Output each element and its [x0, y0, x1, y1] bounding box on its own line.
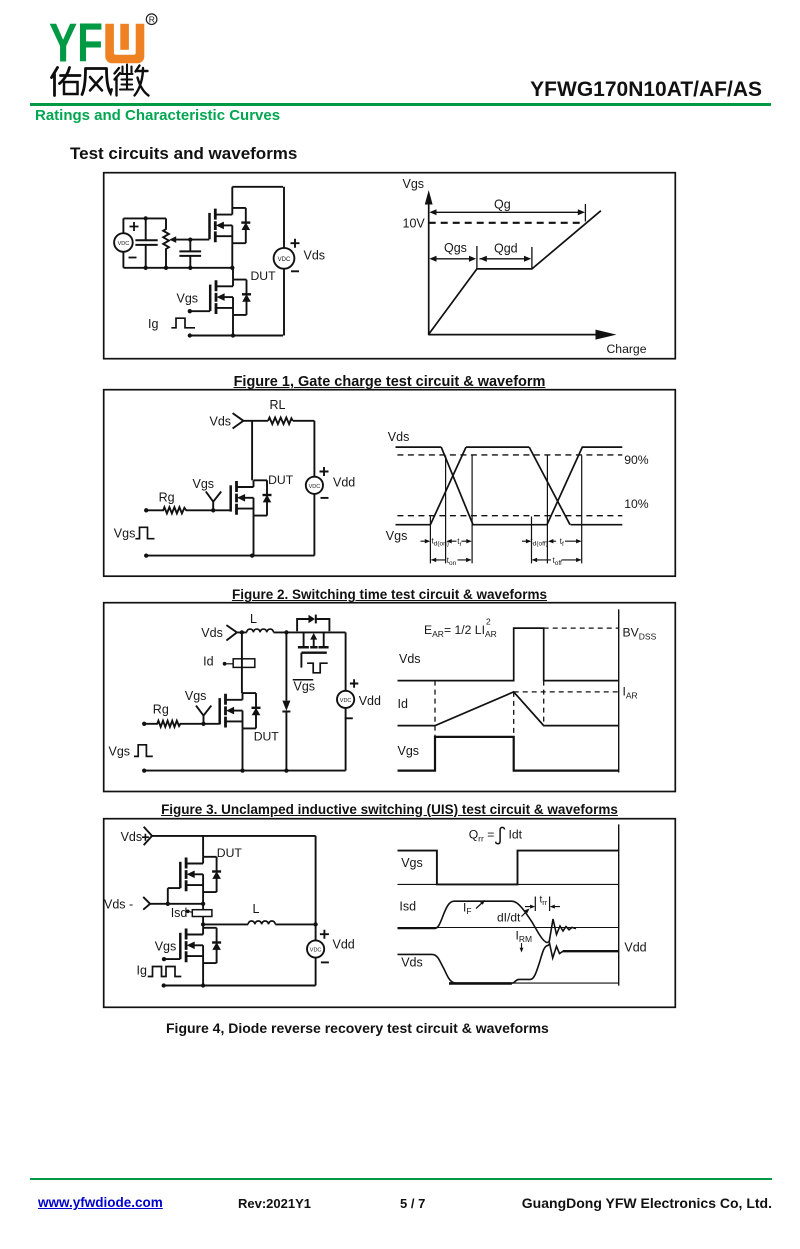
svg-text:Vds: Vds — [388, 430, 410, 444]
svg-text:IF: IF — [463, 901, 472, 917]
Vds+ probe — [144, 827, 152, 845]
minus sign Vds — [291, 270, 299, 272]
wire: DUT source down — [253, 516, 255, 556]
ton arrow — [432, 559, 471, 561]
figure 3 frame — [104, 603, 676, 792]
VDC gate supply source — [114, 233, 133, 252]
wire: bottom rail — [144, 770, 345, 772]
inductor L — [248, 921, 275, 924]
svg-text:Vgs: Vgs — [155, 940, 177, 954]
svg-text:RL: RL — [270, 398, 286, 412]
wire: DUT gate — [190, 310, 210, 312]
gate charge curve — [428, 211, 601, 335]
svg-text:L: L — [250, 612, 257, 626]
svg-text:Qrr =: Qrr = — [469, 828, 495, 844]
dashed IAR level — [514, 691, 619, 693]
logo chinese feng — [82, 69, 112, 95]
resistor Rg — [146, 507, 230, 513]
fig1 waveform — [425, 190, 617, 340]
svg-text:90%: 90% — [624, 453, 649, 467]
svg-text:2: 2 — [486, 617, 491, 627]
svg-text:Rg: Rg — [153, 703, 169, 717]
caption figure 3 — [103, 802, 676, 817]
svg-text:Rg: Rg — [159, 491, 175, 505]
footer rule — [30, 1178, 772, 1181]
fall 2 — [529, 447, 570, 525]
caption figure 1 — [103, 374, 676, 390]
td(off) arrows — [522, 540, 580, 542]
svg-text:Vdd: Vdd — [333, 938, 355, 952]
Vds rise with ringing — [512, 944, 564, 984]
svg-text:Ig: Ig — [137, 964, 147, 978]
transistor DUT fig3 — [220, 693, 261, 728]
wire: top right — [293, 421, 315, 477]
svg-text:Vdd: Vdd — [333, 476, 355, 490]
rise 1 — [430, 447, 466, 525]
registered mark — [146, 14, 157, 25]
dashed vertical t0 — [434, 681, 436, 737]
svg-text:BVDSS: BVDSS — [623, 626, 657, 642]
svg-text:Idt: Idt — [509, 828, 523, 842]
svg-text:Qg: Qg — [494, 198, 511, 212]
wire: lower gate — [164, 958, 180, 960]
svg-text:DUT: DUT — [251, 269, 277, 283]
integral sign — [496, 827, 505, 843]
Qg measure line — [431, 211, 583, 213]
svg-text:L: L — [253, 902, 260, 916]
potentiometer R1 — [163, 218, 169, 267]
transistor DUT fig2 — [231, 480, 272, 515]
Vds high segments — [396, 446, 623, 448]
svg-text:Vdd: Vdd — [624, 941, 646, 955]
wire: DUT gate lead — [168, 888, 181, 904]
Vgs probe Y — [206, 492, 221, 511]
Id pointer — [226, 663, 234, 665]
fig3 waveform — [398, 609, 619, 772]
svg-text:Vgs: Vgs — [386, 529, 408, 543]
svg-text:10V: 10V — [403, 217, 426, 231]
svg-text:Vgs: Vgs — [401, 856, 423, 870]
fig2 waveform — [396, 447, 623, 563]
wire: lower source — [202, 963, 204, 985]
svg-text:Vgs: Vgs — [398, 744, 420, 758]
svg-text:Qgs: Qgs — [444, 241, 467, 255]
Vgs overline — [293, 679, 314, 681]
Vgs axis — [428, 203, 430, 335]
clamp gate lead — [300, 653, 302, 668]
IRM down arrow — [521, 943, 523, 950]
wire: DUT drain to rail — [202, 836, 204, 856]
dashed 10% — [397, 515, 622, 517]
10V dashed line — [429, 222, 584, 224]
Isd zero line — [398, 927, 619, 929]
svg-text:dI/dt: dI/dt — [497, 911, 521, 925]
svg-text:Ig: Ig — [148, 317, 158, 331]
wire: bottom rail — [190, 335, 283, 337]
logo chinese wei — [115, 68, 121, 96]
svg-text:tr: tr — [457, 537, 462, 548]
section label — [35, 107, 280, 124]
right axis — [618, 824, 620, 985]
figure 1 frame — [104, 173, 676, 359]
svg-text:DUT: DUT — [217, 846, 243, 860]
wire: bottom rail — [146, 555, 314, 557]
wire: left source loop — [123, 218, 166, 267]
wire: DUT drain — [232, 268, 234, 280]
wire: inductor to right branch — [275, 923, 315, 925]
resistor Rg — [144, 721, 219, 727]
transistor Q1 upper — [210, 208, 251, 243]
svg-text:IAR: IAR — [623, 685, 638, 701]
svg-text:Vgs: Vgs — [193, 477, 215, 491]
wire: source down to Isd box — [202, 892, 204, 928]
freewheel diode branch — [285, 632, 287, 770]
wire: DUT source — [242, 728, 244, 770]
Vds trace — [398, 954, 457, 983]
wire: top rail — [232, 186, 283, 188]
svg-text:ton: ton — [447, 556, 457, 567]
source VDC Vdd — [306, 477, 323, 494]
dashed BVdss level — [544, 627, 619, 629]
Vgs trace — [398, 851, 619, 885]
plus sign — [320, 467, 329, 476]
Ig double pulse — [148, 967, 182, 977]
node dots — [144, 216, 236, 337]
clamp FET stubs — [304, 632, 324, 647]
fall 1 — [441, 447, 473, 525]
footer rev — [238, 1196, 311, 1211]
capacitor C1 — [145, 218, 147, 239]
Isd trace — [398, 901, 577, 942]
clamp FET body arrow — [310, 633, 317, 640]
wire: Q1 drain to top rail — [231, 187, 233, 208]
svg-text:Vds: Vds — [399, 652, 421, 666]
diode D1 — [282, 701, 290, 711]
svg-text:Charge: Charge — [607, 342, 647, 356]
wire: left bottom rail — [123, 267, 232, 269]
logo YFW — [0, 0, 170, 100]
logo W mark — [105, 24, 144, 63]
plus sign — [130, 222, 139, 231]
dashed 90% — [397, 454, 622, 456]
measure ticks — [430, 456, 581, 564]
transistor DUT upper — [180, 857, 221, 892]
dI/dt arrow — [522, 910, 529, 917]
svg-text:VDC: VDC — [278, 257, 291, 263]
Vgs baseline — [398, 883, 619, 885]
right axis — [618, 609, 620, 772]
Ig pulse symbol — [171, 318, 195, 328]
rise 2 — [547, 447, 582, 525]
svg-text:VDC: VDC — [309, 484, 321, 490]
source VDC Vds — [274, 248, 295, 269]
svg-text:DUT: DUT — [254, 730, 280, 744]
wire: right branch — [345, 632, 347, 770]
plus sign — [320, 930, 329, 939]
minus sign — [345, 717, 353, 719]
current sense box Isd — [192, 910, 212, 917]
charge axis — [428, 334, 596, 336]
svg-text:VDC: VDC — [118, 241, 130, 247]
svg-text:td(on): td(on) — [432, 537, 449, 548]
minus sign — [321, 497, 329, 499]
wire: DUT source — [232, 315, 234, 336]
Id trace — [398, 692, 619, 726]
trr ticks and arrows — [535, 897, 549, 912]
node dots — [162, 902, 318, 988]
wire: drain branch — [251, 421, 253, 481]
node dots — [144, 508, 254, 558]
svg-text:td(off): td(off) — [531, 537, 548, 548]
svg-text:Vgs: Vgs — [109, 745, 131, 759]
wire: DUT drain with Id box — [241, 632, 243, 693]
wire: Vds- to source — [150, 903, 203, 905]
svg-text:Vds: Vds — [304, 249, 326, 263]
svg-text:Isd: Isd — [399, 900, 416, 914]
footer company — [522, 1195, 772, 1211]
minus sign — [129, 257, 137, 259]
svg-text:Vgs: Vgs — [185, 689, 207, 703]
svg-text:VDC: VDC — [340, 698, 352, 704]
resistor RL — [268, 418, 293, 425]
toff arrow — [533, 559, 581, 561]
figure 4 frame — [104, 819, 676, 1008]
fig4 waveform — [398, 824, 619, 985]
Qgs Qgd measure lines — [431, 258, 530, 260]
svg-text:Vds: Vds — [201, 626, 223, 640]
bottom baseline — [449, 982, 619, 984]
caption figure 4 — [166, 1020, 549, 1036]
svg-text:toff: toff — [553, 556, 563, 567]
Vgs pulse symbol — [134, 745, 153, 757]
IF arrow — [476, 902, 484, 909]
svg-text:Isd: Isd — [171, 906, 188, 920]
clamp diode — [309, 615, 316, 623]
minus sign — [321, 961, 329, 963]
wire: Q1 source down — [231, 243, 233, 268]
inverted pulse symbol — [307, 663, 328, 673]
svg-text:Id: Id — [398, 697, 408, 711]
svg-text:Vds: Vds — [121, 830, 143, 844]
dashed vertical t1 — [513, 692, 515, 737]
clamp FET gate bar — [301, 652, 326, 654]
svg-text:Vgs: Vgs — [114, 527, 136, 541]
svg-text:trr: trr — [540, 895, 548, 908]
wire: top left — [243, 420, 268, 422]
footer link — [38, 1195, 163, 1210]
plus sign — [350, 679, 358, 687]
Vds trace — [398, 628, 619, 681]
svg-text:Qgd: Qgd — [494, 242, 518, 256]
footer page — [400, 1196, 425, 1211]
transistor lower — [180, 928, 221, 963]
heading — [70, 144, 297, 164]
Vds probe — [226, 625, 237, 640]
source VDC Vdd — [337, 691, 354, 708]
wire: top rail — [237, 631, 346, 633]
wire: bottom rail — [164, 985, 316, 987]
dashed vertical t2 — [543, 681, 545, 726]
svg-text:Vgs: Vgs — [403, 177, 425, 191]
plus mark — [142, 834, 149, 841]
svg-text:Id: Id — [203, 655, 213, 669]
Vgs low segments — [396, 524, 623, 526]
Vdd level line — [563, 950, 619, 952]
logo chinese you — [52, 65, 149, 96]
svg-text:Vds -: Vds - — [104, 898, 133, 912]
caption figure 2 — [103, 587, 676, 602]
Vds- probe — [143, 897, 150, 910]
Isd pointer — [186, 910, 190, 914]
Vds low thick — [449, 982, 512, 985]
svg-text:Vds: Vds — [401, 956, 423, 970]
transistor Q2 DUT — [210, 280, 251, 315]
source VDC Vdd — [307, 940, 324, 957]
svg-text:Vgs: Vgs — [294, 680, 316, 694]
plus sign Vds — [291, 239, 300, 248]
wire: wiper to gate — [176, 239, 210, 241]
td(on) arrows — [421, 540, 471, 542]
inductor L — [247, 629, 274, 632]
svg-text:10%: 10% — [624, 497, 649, 511]
Vgs probe Y — [196, 706, 211, 724]
svg-text:DUT: DUT — [268, 473, 294, 487]
svg-text:VDC: VDC — [310, 948, 322, 954]
svg-text:tf: tf — [560, 537, 564, 548]
Vgs trace — [398, 737, 619, 771]
wire: Vdd to rail — [315, 958, 317, 986]
svg-text:Vdd: Vdd — [359, 694, 381, 708]
svg-text:Vgs: Vgs — [177, 292, 199, 306]
node dots — [142, 630, 288, 772]
wire: right branch — [283, 187, 285, 336]
part number title — [0, 78, 762, 102]
green header rule — [30, 103, 771, 106]
capacitor C2 — [189, 240, 191, 252]
figure 2 frame — [104, 390, 676, 577]
clamp FET channel — [298, 646, 329, 649]
svg-text:IRM: IRM — [516, 929, 533, 945]
Vds probe — [233, 413, 244, 428]
current sense box Id — [233, 659, 255, 668]
Vgs pulse symbol — [135, 527, 154, 538]
wire: top rail — [152, 836, 316, 940]
wire: Vdd to rail — [313, 494, 315, 556]
clamp FET diode loop — [297, 619, 329, 631]
wire: node to inductor — [203, 923, 248, 925]
svg-text:Vds: Vds — [210, 415, 232, 429]
